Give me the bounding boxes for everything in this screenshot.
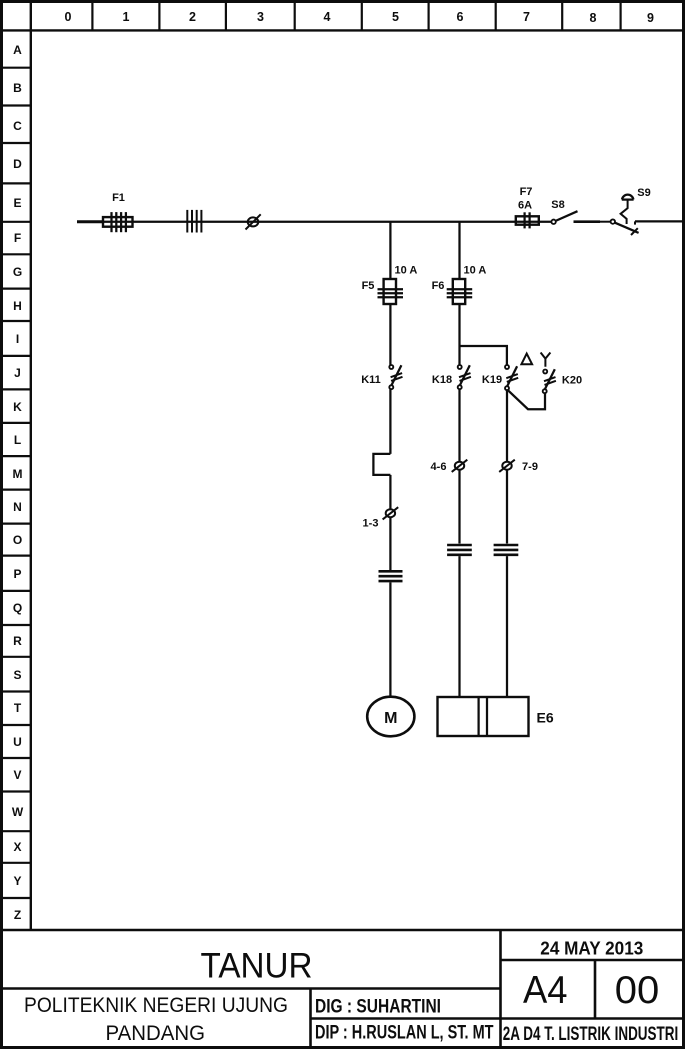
svg-text:F: F — [14, 231, 21, 245]
svg-text:24 MAY 2013: 24 MAY 2013 — [540, 938, 643, 958]
letter row dividers — [3, 68, 31, 898]
svg-text:S: S — [13, 668, 21, 682]
svg-text:F6: F6 — [432, 280, 445, 292]
svg-text:PANDANG: PANDANG — [106, 1022, 206, 1045]
contactor contact K20 — [543, 369, 556, 393]
heater E6 — [438, 697, 529, 736]
wire: tap to K19 branch — [460, 346, 507, 365]
star symbol — [541, 353, 551, 367]
wire: bars to motor — [389, 582, 391, 697]
svg-text:Q: Q — [13, 601, 22, 615]
slash-circle marker on bus — [246, 214, 261, 229]
wire: supply lead-in (thick) — [77, 220, 104, 223]
wire: K11 to overload — [389, 389, 391, 454]
svg-text:5: 5 — [392, 10, 399, 24]
svg-text:K18: K18 — [432, 374, 452, 386]
svg-text:00: 00 — [615, 969, 660, 1012]
svg-text:9: 9 — [647, 11, 654, 25]
svg-text:L: L — [14, 433, 21, 447]
delta symbol — [521, 354, 532, 365]
svg-text:P: P — [13, 567, 21, 581]
svg-text:O: O — [13, 533, 22, 547]
svg-text:H: H — [13, 299, 22, 313]
wire: branch 2 drop to F6 — [458, 222, 460, 280]
wire: bus from S9 to right border — [635, 220, 682, 222]
svg-text:2: 2 — [189, 10, 196, 24]
svg-text:3: 3 — [257, 10, 264, 24]
switch S8 — [551, 211, 610, 224]
fuse F6 — [447, 279, 473, 304]
svg-text:10 A: 10 A — [395, 265, 418, 277]
svg-text:C: C — [13, 119, 22, 133]
svg-text:6: 6 — [457, 10, 464, 24]
svg-text:J: J — [14, 366, 21, 380]
svg-text:N: N — [13, 500, 22, 514]
svg-text:10 A: 10 A — [464, 265, 487, 277]
header texts — [65, 10, 655, 25]
svg-text:2A D4 T. LISTRIK INDUSTRI: 2A D4 T. LISTRIK INDUSTRI — [503, 1024, 679, 1045]
conductor bundle marks — [187, 210, 201, 233]
svg-text:U: U — [13, 735, 22, 749]
svg-text:4-6: 4-6 — [431, 461, 447, 473]
svg-text:DIP : H.RUSLAN L, ST. MT: DIP : H.RUSLAN L, ST. MT — [315, 1022, 494, 1043]
fuse F5 — [378, 279, 404, 304]
wire: K18 to marker 4-6 — [458, 389, 460, 461]
svg-text:POLITEKNIK NEGERI UJUNG: POLITEKNIK NEGERI UJUNG — [24, 994, 288, 1017]
title block lines — [3, 930, 682, 1046]
svg-text:K: K — [13, 400, 22, 414]
svg-text:K20: K20 — [562, 375, 582, 387]
svg-text:F1: F1 — [112, 192, 125, 204]
fuse F7 — [516, 212, 539, 228]
contactor contact K11 — [389, 365, 402, 389]
svg-text:D: D — [13, 157, 22, 171]
svg-text:Y: Y — [13, 874, 21, 888]
connection bars (branch 3) — [494, 545, 519, 555]
motor M1 — [367, 697, 414, 737]
svg-text:M: M — [384, 710, 397, 727]
header column dividers — [92, 3, 620, 30]
emergency-stop switch S9 — [611, 195, 639, 235]
fuse F1 — [103, 212, 133, 232]
svg-text:B: B — [13, 81, 22, 95]
wire: marker to bars (branch 2) — [458, 470, 460, 544]
svg-text:1-3: 1-3 — [363, 518, 379, 530]
svg-text:0: 0 — [65, 10, 72, 24]
svg-text:1: 1 — [123, 10, 130, 24]
wire: marker to bars (branch 1) — [389, 517, 391, 570]
svg-text:S9: S9 — [637, 187, 650, 199]
svg-text:DIG : SUHARTINI: DIG : SUHARTINI — [315, 997, 441, 1018]
wire: F6 to K18 — [458, 304, 460, 365]
svg-text:T: T — [14, 701, 22, 715]
svg-text:Z: Z — [14, 908, 21, 922]
svg-text:R: R — [13, 634, 22, 648]
svg-text:7-9: 7-9 — [522, 461, 538, 473]
wire: marker to bars (branch 3) — [506, 470, 508, 544]
svg-text:V: V — [13, 768, 21, 782]
svg-text:A: A — [13, 43, 22, 57]
overload trip marker 1-3 — [383, 507, 399, 519]
connection bars (branch 2) — [447, 545, 472, 555]
svg-text:E6: E6 — [537, 710, 554, 726]
overload trip marker 4-6 — [452, 460, 468, 472]
svg-text:I: I — [16, 332, 19, 346]
svg-text:S8: S8 — [551, 199, 564, 211]
svg-text:X: X — [13, 840, 21, 854]
wire: overload to marker 1-3 — [389, 475, 391, 509]
svg-text:7: 7 — [523, 10, 530, 24]
connection bars (branch 1) — [379, 571, 403, 581]
svg-text:G: G — [13, 265, 22, 279]
thermal overload heater 1-3 (dog-leg) — [373, 454, 390, 475]
svg-text:F7: F7 — [520, 186, 533, 198]
svg-text:TANUR: TANUR — [201, 946, 313, 986]
svg-text:6A: 6A — [518, 200, 532, 212]
letter column right line — [30, 3, 32, 930]
header row bottom line — [3, 29, 682, 31]
contactor contact K19 — [505, 365, 518, 390]
wire: F5 to K11 — [389, 304, 391, 365]
svg-text:8: 8 — [590, 11, 597, 25]
title block texts — [24, 938, 678, 1045]
wire: bars to heater box E6 (branch 2) — [458, 556, 460, 697]
svg-text:E: E — [13, 196, 21, 210]
wire: K19 to marker 7-9 — [506, 390, 508, 461]
svg-text:4: 4 — [324, 10, 331, 24]
wire: K19 bottom to K20 bottom (dog-leg) — [508, 390, 546, 409]
svg-text:M: M — [13, 467, 23, 481]
contactor contact K18 — [458, 365, 471, 389]
wire: main bus L1 — [104, 221, 552, 223]
svg-text:K11: K11 — [361, 374, 381, 386]
svg-text:F5: F5 — [362, 280, 375, 292]
svg-text:A4: A4 — [523, 969, 568, 1012]
overload trip marker 7-9 — [499, 460, 515, 472]
svg-text:W: W — [12, 805, 24, 819]
wire: bars to heater box E6 (branch 3) — [506, 556, 508, 697]
svg-text:K19: K19 — [482, 374, 502, 386]
wire: branch 1 drop to F5 — [389, 222, 391, 280]
